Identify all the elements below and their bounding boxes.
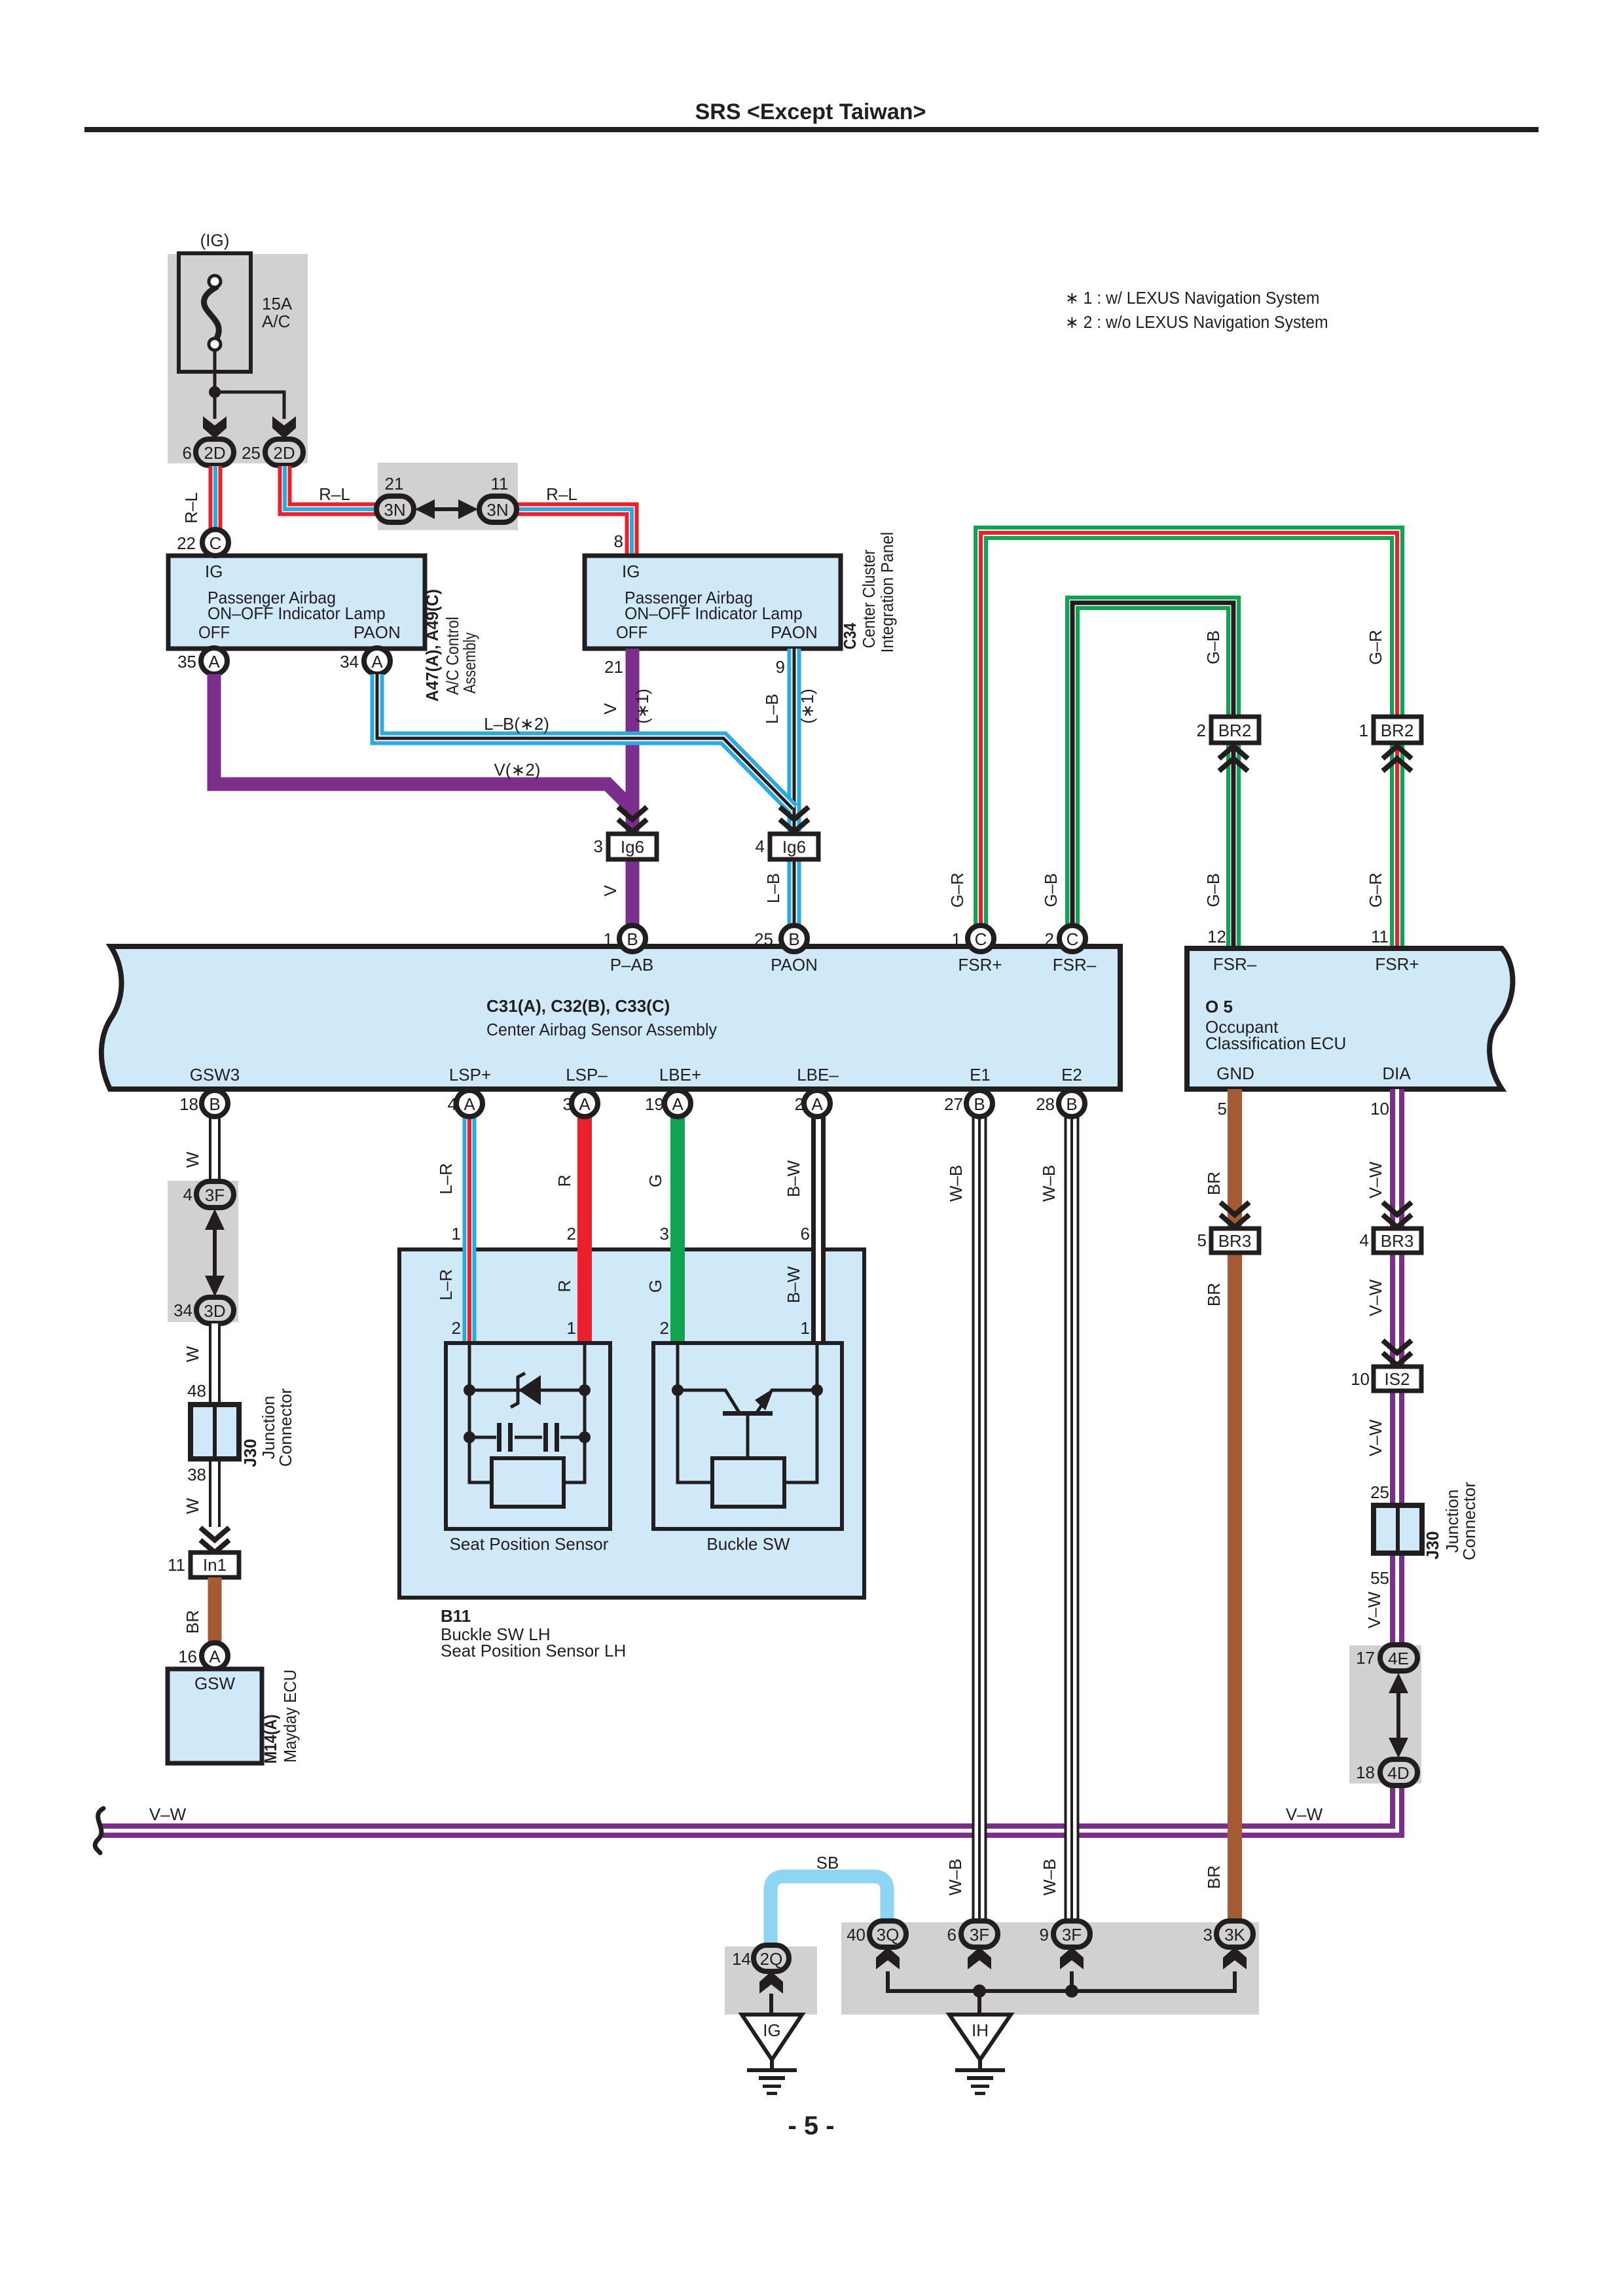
side label M14(A) Mayday ECU <box>262 1670 301 1764</box>
svg-text:14: 14 <box>732 1949 751 1969</box>
svg-text:A: A <box>672 1094 684 1114</box>
svg-text:L–R: L–R <box>436 1163 456 1194</box>
wire label B-W inner <box>784 1266 803 1303</box>
connector In1 pin 11 <box>191 1552 239 1577</box>
ground connector shaded panel 2Q <box>725 1946 817 2015</box>
svg-text:J30: J30 <box>240 1439 260 1467</box>
center airbag sensor assembly box C31 C32 C33 <box>101 946 1120 1089</box>
pin 19 label <box>645 1094 664 1114</box>
junction dot <box>209 386 221 398</box>
wire R from pin 3A to seat position sensor pin 1 <box>577 1103 592 1343</box>
wire label G-R lower right <box>1366 872 1385 907</box>
pin 3 label <box>563 1094 572 1114</box>
wire label BR lower right <box>1204 1865 1224 1889</box>
pin 4 label <box>448 1094 457 1114</box>
svg-text:2: 2 <box>567 1224 576 1244</box>
pin 1 label above B11 <box>452 1224 461 1244</box>
svg-text:2: 2 <box>1197 721 1206 740</box>
junction dots seat position sensor <box>464 1384 591 1443</box>
svg-text:15A: 15A <box>262 294 293 314</box>
connector BR2 pin 1 <box>1374 717 1421 743</box>
wire label V below Ig6 <box>600 885 620 897</box>
A/C control assembly box A47 A49 <box>168 556 425 649</box>
svg-text:3F: 3F <box>970 1925 989 1945</box>
svg-text:(∗1): (∗1) <box>797 689 817 724</box>
side label C34 Center Cluster Integration Panel <box>841 532 897 653</box>
terminal B pin 28 E2 <box>1059 1090 1085 1117</box>
pin 16 label <box>178 1647 197 1666</box>
terminal C pin 22 <box>202 529 228 556</box>
wire label V (*1) <box>600 689 652 724</box>
pin 2 label <box>795 1094 804 1114</box>
wire label R-L left segment <box>319 484 350 504</box>
svg-text:BR: BR <box>1204 1283 1224 1306</box>
svg-text:Ig6: Ig6 <box>621 837 644 857</box>
label B11 Buckle SW LH Seat Position Sensor LH <box>441 1606 626 1660</box>
arrow into Ig6 pin 4 <box>780 807 809 832</box>
svg-text:M14(A): M14(A) <box>262 1714 281 1763</box>
terminal B pin 25 <box>781 925 807 952</box>
svg-text:3: 3 <box>1203 1925 1213 1945</box>
svg-text:PAON: PAON <box>771 955 818 975</box>
svg-text:55: 55 <box>1370 1568 1389 1588</box>
svg-text:9: 9 <box>1040 1925 1049 1945</box>
svg-text:In1: In1 <box>203 1555 227 1575</box>
svg-text:B: B <box>788 929 799 949</box>
double arrow between 3F and 3D <box>205 1209 225 1297</box>
svg-text:21: 21 <box>604 657 623 677</box>
svg-text:P–AB: P–AB <box>610 955 654 975</box>
connector 3Q pin 40 <box>869 1921 906 1947</box>
svg-text:2: 2 <box>452 1318 461 1338</box>
svg-text:3F: 3F <box>205 1185 225 1205</box>
svg-text:11: 11 <box>1371 927 1389 946</box>
pin 17 label 4E <box>1356 1648 1375 1668</box>
svg-text:L–R: L–R <box>436 1269 456 1300</box>
svg-text:Seat Position Sensor: Seat Position Sensor <box>450 1534 609 1554</box>
terminal C pin 2 <box>1059 925 1085 952</box>
svg-text:R–L: R–L <box>546 484 577 504</box>
pin 8 label <box>614 531 623 551</box>
svg-text:GND: GND <box>1216 1064 1254 1083</box>
arrow into Ig6 pin 3 <box>618 807 647 832</box>
arrow up into BR2 pin 1 <box>1383 746 1412 771</box>
connector 3F pin 4 <box>196 1181 234 1208</box>
transistor in buckle SW <box>723 1388 774 1416</box>
svg-text:1: 1 <box>567 1318 576 1338</box>
center cluster integration panel box C34 <box>585 556 841 649</box>
seat position sensor inner box <box>446 1343 610 1529</box>
fuse 15A A/C <box>179 253 251 372</box>
svg-text:GSW: GSW <box>194 1674 236 1693</box>
note *1 w/ LEXUS Navigation System <box>1065 289 1320 308</box>
svg-text:A/C Control: A/C Control <box>444 617 463 695</box>
svg-text:V–W: V–W <box>1366 1161 1385 1198</box>
svg-text:DIA: DIA <box>1382 1064 1411 1083</box>
svg-text:PAON: PAON <box>354 622 401 642</box>
arrow into BR3 pin 5 <box>1220 1202 1249 1227</box>
seat position sensor internal wiring <box>469 1343 585 1482</box>
terminal B pin 27 E1 <box>966 1090 993 1117</box>
svg-text:O 5: O 5 <box>1205 997 1233 1016</box>
pin 2 label inner right <box>660 1318 669 1338</box>
terminal B pin 18 GSW3 <box>202 1090 228 1117</box>
connector 3N pin 11 <box>479 496 517 522</box>
wire label V-W left end <box>149 1804 187 1824</box>
label seat position sensor <box>450 1534 609 1554</box>
svg-text:3N: 3N <box>486 500 508 520</box>
svg-text:10: 10 <box>1370 1099 1389 1119</box>
svg-text:Buckle SW: Buckle SW <box>706 1534 790 1554</box>
capacitor C-a <box>497 1423 513 1452</box>
mayday ECU box M14 <box>168 1669 262 1763</box>
terminal A pin 2 LBE- <box>804 1090 830 1117</box>
wire W-B from E2 pin28 to 3F <box>1065 1103 1080 1934</box>
terminal C pin 1 <box>968 925 994 952</box>
svg-text:3Q: 3Q <box>877 1925 900 1945</box>
svg-text:4D: 4D <box>1387 1763 1409 1783</box>
wire label L-B(*2) <box>484 714 549 734</box>
wire label G-R upper right <box>1366 630 1385 664</box>
svg-text:W–B: W–B <box>946 1165 966 1202</box>
pin 4 label <box>756 836 765 856</box>
connector 4E pin 17 <box>1380 1645 1417 1671</box>
svg-text:8: 8 <box>614 531 623 551</box>
wire W-B from E1 pin27 to 3F <box>972 1103 987 1934</box>
fuse area shaded panel <box>168 254 308 463</box>
svg-text:G–R: G–R <box>1366 872 1385 907</box>
svg-text:FSR–: FSR– <box>1053 955 1097 975</box>
svg-text:3D: 3D <box>204 1301 225 1321</box>
page number <box>788 2111 834 2140</box>
side label J30 Junction Connector left <box>240 1388 295 1467</box>
svg-text:25: 25 <box>1370 1482 1389 1502</box>
junction 3N shaded panel <box>378 463 518 530</box>
pin 2 label FSR- <box>1045 929 1054 949</box>
svg-text:2D: 2D <box>273 443 295 463</box>
pin 1 label inner far right <box>801 1318 810 1338</box>
svg-text:G–B: G–B <box>1203 630 1223 664</box>
arrow into IS2 <box>1383 1340 1412 1365</box>
wire L-B from C34 pin9 to airbag sensor pin 25B <box>788 649 801 939</box>
wire G-B loop from sensor FSR- 2C to occupant ECU FSR- 12 <box>1072 603 1233 948</box>
wire R-L from 2D pin25 to junction connector 3N pin21 <box>285 466 380 509</box>
wire label R-L vertical <box>181 492 201 524</box>
capacitor C-b <box>543 1423 559 1452</box>
wire label R inner <box>555 1280 574 1293</box>
svg-text:LBE–: LBE– <box>797 1065 839 1085</box>
svg-text:Ig6: Ig6 <box>782 837 806 857</box>
svg-text:4: 4 <box>183 1185 192 1204</box>
wire label R-L right segment <box>546 484 577 504</box>
svg-text:B–W: B–W <box>784 1266 803 1303</box>
side label J30 Junction Connector right <box>1423 1482 1479 1560</box>
svg-text:6: 6 <box>801 1224 810 1244</box>
svg-text:G–R: G–R <box>947 872 967 907</box>
svg-text:V–W: V–W <box>1366 1279 1385 1316</box>
svg-text:FSR+: FSR+ <box>958 955 1002 975</box>
svg-text:B: B <box>209 1094 220 1114</box>
buckle SW inner box <box>653 1343 842 1529</box>
connector Ig6 pin 3 <box>608 834 657 859</box>
note *2 w/o LEXUS Navigation System <box>1065 313 1328 332</box>
wire V(*2) from A/C pin35 joining V wire <box>214 674 631 808</box>
svg-text:PAON: PAON <box>771 622 818 642</box>
buckle SW seat position sensor box B11 <box>399 1249 864 1598</box>
buckle SW internal wiring <box>678 1343 817 1482</box>
svg-text:IG: IG <box>763 2020 780 2040</box>
svg-text:OFF: OFF <box>616 623 647 642</box>
svg-text:27: 27 <box>944 1094 963 1114</box>
arrow up into BR2 pin 2 <box>1219 746 1248 771</box>
svg-text:BR: BR <box>1204 1172 1224 1195</box>
svg-text:V–W: V–W <box>1366 1419 1385 1456</box>
svg-text:A: A <box>811 1094 823 1114</box>
pin 2 label BR2 <box>1197 721 1206 740</box>
pin 4 label 3F <box>183 1185 192 1204</box>
svg-text:1: 1 <box>801 1318 810 1338</box>
pin 11 label <box>1371 927 1389 946</box>
svg-text:6: 6 <box>947 1925 957 1945</box>
arrow into BR3 pin 4 <box>1383 1202 1412 1227</box>
wire label SB <box>816 1853 839 1873</box>
connector 2Q pin 14 <box>754 1945 789 1971</box>
svg-text:1: 1 <box>1359 721 1368 740</box>
svg-text:L–B: L–B <box>763 873 783 903</box>
svg-text:IS2: IS2 <box>1384 1369 1410 1389</box>
wire junction to left arrow <box>213 392 217 419</box>
svg-text:LSP–: LSP– <box>566 1065 608 1085</box>
svg-text:G–R: G–R <box>1366 630 1385 664</box>
svg-text:C31(A), C32(B), C33(C): C31(A), C32(B), C33(C) <box>486 996 670 1016</box>
svg-text:ON–OFF Indicator Lamp: ON–OFF Indicator Lamp <box>625 604 803 623</box>
svg-text:C: C <box>1067 929 1079 949</box>
pin 12 label <box>1207 927 1226 946</box>
svg-text:BR: BR <box>1204 1865 1224 1889</box>
svg-text:W–B: W–B <box>945 1859 965 1895</box>
pin 28 label <box>1036 1094 1055 1114</box>
svg-text:12: 12 <box>1207 927 1226 946</box>
page continuation squiggle left end <box>95 1808 103 1853</box>
svg-text:3: 3 <box>594 836 603 856</box>
double arrow between 4E and 4D <box>1389 1673 1408 1758</box>
svg-text:A: A <box>209 1647 221 1666</box>
terminal A pin 35 <box>201 648 227 674</box>
arrow into connector 2D pin 25 <box>272 416 296 439</box>
terminal A pin 34 <box>364 648 390 674</box>
svg-text:(IG): (IG) <box>200 230 230 250</box>
svg-text:E2: E2 <box>1061 1065 1082 1085</box>
svg-text:W–B: W–B <box>1039 1165 1059 1202</box>
wire label V-W mid <box>1366 1279 1385 1316</box>
svg-text:BR: BR <box>183 1610 202 1634</box>
pin 3 label <box>594 836 603 856</box>
resistor block buckle SW <box>712 1458 784 1507</box>
svg-text:IG: IG <box>205 562 223 581</box>
svg-text:Seat Position Sensor LH: Seat Position Sensor LH <box>441 1641 626 1660</box>
wire from 3F pin9 arrow to bus <box>1070 1971 1074 1991</box>
wire label W-B upper E2 <box>1039 1165 1059 1202</box>
pin 35 label <box>177 652 196 672</box>
svg-text:Mayday ECU: Mayday ECU <box>281 1670 300 1763</box>
svg-text:BR3: BR3 <box>1218 1231 1252 1251</box>
pin 1 label <box>604 929 613 949</box>
wire R-L from 3N pin11 to C34 pin8 <box>488 509 632 556</box>
ground symbol IG <box>742 2015 802 2095</box>
resistor block seat position sensor <box>492 1458 564 1507</box>
pin 55 label J30 right <box>1370 1568 1389 1588</box>
svg-text:A47(A), A49(C): A47(A), A49(C) <box>423 589 442 702</box>
svg-text:A: A <box>208 652 220 672</box>
wire junction to right branch <box>215 392 284 419</box>
pin 34 label <box>340 652 359 672</box>
wire L-R from pin 4A to seat position sensor pin 2 <box>463 1103 477 1343</box>
svg-text:W: W <box>183 1346 202 1362</box>
svg-text:V: V <box>600 885 620 897</box>
label buckle SW <box>706 1534 790 1554</box>
svg-text:48: 48 <box>187 1381 206 1401</box>
pin 9 label under C34 <box>776 657 785 677</box>
pin 21 label <box>385 474 404 493</box>
svg-text:5: 5 <box>1218 1099 1227 1119</box>
wire label V-W below J30 <box>1364 1591 1384 1628</box>
junction dot bus E1 <box>973 1984 986 1998</box>
svg-text:A: A <box>371 652 383 672</box>
pin 14 label 2Q <box>732 1949 751 1969</box>
pin 40 label 3Q <box>847 1925 866 1945</box>
wire label G-R lower left <box>947 872 967 907</box>
connector 4D pin 18 <box>1380 1759 1417 1785</box>
svg-text:18: 18 <box>1356 1763 1375 1782</box>
svg-text:LSP+: LSP+ <box>449 1065 491 1085</box>
svg-text:V–W: V–W <box>1286 1804 1323 1824</box>
svg-text:Connector: Connector <box>1459 1482 1479 1560</box>
pin 6 label 3F <box>947 1925 957 1945</box>
svg-text:R: R <box>555 1280 574 1293</box>
wire label W <box>183 1151 202 1168</box>
arrow up into 3F pin9 <box>1060 1947 1084 1969</box>
svg-text:C: C <box>210 533 222 553</box>
svg-text:FSR–: FSR– <box>1213 954 1257 974</box>
wire label B-W upper <box>784 1160 803 1197</box>
pin 18 label <box>179 1094 198 1114</box>
zener diode in seat position sensor <box>511 1373 541 1407</box>
wire label V-W upper <box>1366 1161 1385 1198</box>
svg-text:3F: 3F <box>1062 1925 1082 1945</box>
svg-text:2: 2 <box>660 1318 669 1338</box>
pin 38 label <box>187 1465 206 1484</box>
connector 2D pin 6 <box>196 439 234 465</box>
svg-text:SB: SB <box>816 1853 839 1873</box>
svg-text:25: 25 <box>242 443 261 463</box>
svg-text:B11: B11 <box>441 1606 471 1626</box>
wire label L-B below Ig6 <box>763 873 783 903</box>
svg-text:34: 34 <box>173 1300 192 1320</box>
svg-text:22: 22 <box>177 533 196 553</box>
svg-text:G: G <box>646 1174 665 1187</box>
wire label L-B (*1) <box>762 689 817 724</box>
svg-text:11: 11 <box>168 1555 185 1575</box>
connector BR2 pin 2 <box>1211 717 1259 743</box>
wire label G-B lower right <box>1203 873 1223 907</box>
pin 21 label under C34 <box>604 657 623 677</box>
svg-text:9: 9 <box>776 657 785 677</box>
svg-text:A: A <box>464 1094 475 1114</box>
svg-text:4E: 4E <box>1388 1649 1409 1668</box>
svg-text:OFF: OFF <box>198 623 230 642</box>
junction dots buckle SW <box>672 1384 823 1396</box>
pin 11 label <box>491 474 509 493</box>
side label A47(A) A49(C) A/C Control Assembly <box>423 589 479 702</box>
svg-text:Classification ECU: Classification ECU <box>1205 1033 1346 1053</box>
connector Ig6 pin 4 <box>770 834 818 859</box>
wire V-W from DIA pin10 down and across page <box>100 1089 1397 1831</box>
svg-text:BR2: BR2 <box>1381 721 1414 740</box>
pin 1 label BR2 <box>1359 721 1368 740</box>
arrow up into 2Q <box>759 1971 783 1994</box>
svg-text:(∗1): (∗1) <box>632 689 652 724</box>
svg-text:R–L: R–L <box>319 484 350 504</box>
pin 25 label <box>754 929 773 949</box>
wire label V-W below IS2 <box>1366 1419 1385 1456</box>
svg-text:V–W: V–W <box>1364 1591 1384 1628</box>
svg-text:W: W <box>183 1498 202 1514</box>
wire L-B(*2) from A/C pin34 joining L-B wire <box>377 674 793 809</box>
svg-text:L–B: L–B <box>762 694 782 724</box>
wire label BR upper <box>1204 1172 1224 1195</box>
wire G-R loop from sensor FSR+ 1C to occupant ECU FSR+ 11 <box>981 533 1397 948</box>
wire from fuse to junction <box>213 350 217 392</box>
svg-text:2Q: 2Q <box>760 1949 783 1969</box>
svg-text:B: B <box>1066 1094 1077 1114</box>
svg-text:5: 5 <box>1197 1230 1207 1250</box>
occupant classification ECU box O5 <box>1187 948 1513 1089</box>
fuse value label 15A A/C <box>262 294 293 331</box>
svg-text:V(∗2): V(∗2) <box>494 760 541 780</box>
wire label BR <box>183 1610 202 1634</box>
svg-text:IG: IG <box>622 562 640 581</box>
svg-text:2D: 2D <box>204 443 225 463</box>
svg-text:G–B: G–B <box>1041 873 1061 907</box>
pin 1 label FSR+ <box>952 929 961 949</box>
svg-text:21: 21 <box>385 474 404 493</box>
svg-text:W–B: W–B <box>1040 1859 1059 1895</box>
arrow up into 3F pin6 <box>968 1947 991 1969</box>
junction dot bus E2 <box>1065 1984 1078 1998</box>
junction connector J30 left <box>191 1405 239 1459</box>
connector 3F pin 9 <box>1053 1921 1090 1947</box>
svg-text:- 5 -: - 5 - <box>788 2111 834 2140</box>
wire label V-W right end <box>1286 1804 1323 1824</box>
pin 10 label DIA <box>1370 1099 1389 1119</box>
svg-text:J30: J30 <box>1423 1531 1442 1559</box>
terminal A pin 3 LSP- <box>572 1090 598 1117</box>
title SRS Except Taiwan <box>695 99 926 124</box>
connector BR3 pin 4 <box>1374 1229 1421 1253</box>
pin 6 label above B11 <box>801 1224 810 1244</box>
svg-text:34: 34 <box>340 652 359 672</box>
arrow up into 3Q <box>876 1947 900 1969</box>
pin 5 label BR3 <box>1197 1230 1207 1250</box>
svg-text:11: 11 <box>491 474 509 493</box>
arrow into In1 <box>200 1528 229 1552</box>
svg-text:10: 10 <box>1351 1369 1370 1389</box>
svg-text:1: 1 <box>452 1224 461 1244</box>
wire BR from In1 to mayday ECU pin 16A <box>208 1577 222 1656</box>
svg-text:R–L: R–L <box>181 492 201 524</box>
svg-text:L–B(∗2): L–B(∗2) <box>484 714 549 734</box>
ground connector shaded panel 3Q 3F 3F 3K <box>841 1922 1259 2015</box>
